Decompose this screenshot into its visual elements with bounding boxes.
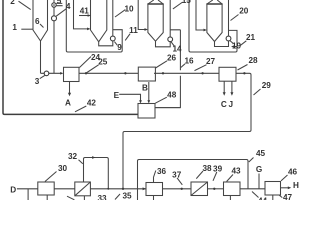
svg-text:D: D [10,186,16,195]
svg-text:45: 45 [256,149,266,158]
svg-text:35: 35 [122,192,132,201]
svg-text:26: 26 [167,53,177,62]
svg-text:4: 4 [66,2,71,11]
svg-text:H: H [293,181,299,190]
svg-text:48: 48 [167,91,177,100]
svg-text:1: 1 [12,23,17,32]
svg-text:C: C [221,100,227,109]
svg-text:41: 41 [80,7,90,16]
svg-text:20: 20 [239,7,249,16]
svg-text:G: G [256,165,262,174]
svg-text:44: 44 [258,197,268,201]
svg-text:E: E [114,91,120,100]
svg-text:46: 46 [288,168,298,177]
svg-text:42: 42 [87,98,97,107]
svg-text:5: 5 [57,0,62,6]
svg-text:37: 37 [172,170,182,179]
svg-text:11: 11 [129,26,138,35]
svg-text:16: 16 [184,56,194,65]
svg-text:28: 28 [248,56,258,65]
svg-text:43: 43 [231,167,241,176]
svg-text:39: 39 [213,164,223,173]
svg-text:27: 27 [206,57,216,66]
svg-text:47: 47 [283,193,293,200]
svg-text:25: 25 [98,58,108,67]
svg-text:15: 15 [182,0,192,5]
svg-text:36: 36 [157,167,167,176]
svg-text:19: 19 [232,41,242,50]
svg-text:38: 38 [202,164,212,173]
svg-text:32: 32 [68,152,78,161]
svg-text:A: A [65,98,71,107]
svg-text:2: 2 [10,0,15,6]
svg-text:3: 3 [35,77,40,86]
svg-text:29: 29 [262,81,272,90]
svg-text:J: J [229,100,234,109]
svg-text:30: 30 [58,164,68,173]
svg-text:9: 9 [117,43,122,52]
svg-text:10: 10 [124,5,134,14]
svg-text:14: 14 [172,45,182,54]
svg-text:6: 6 [35,17,40,26]
svg-text:21: 21 [246,33,256,42]
svg-text:33: 33 [97,194,107,200]
svg-text:B: B [142,84,148,93]
